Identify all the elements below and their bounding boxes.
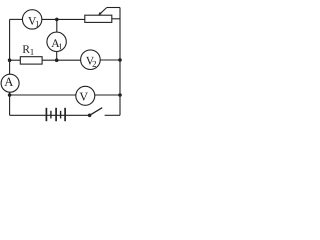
label V2	[86, 57, 94, 65]
wire left edge vertical upper	[9, 19, 11, 74]
wire V2 to right edge	[100, 59, 120, 61]
wire2 left to R1	[10, 59, 21, 61]
switch pivot	[88, 114, 92, 118]
node junction left V-row	[8, 93, 12, 97]
wire top-left horizontal	[10, 18, 23, 20]
battery plates	[45, 108, 47, 121]
ammeter A	[1, 74, 19, 92]
node junction right wire2	[118, 58, 122, 62]
label V1	[28, 17, 36, 25]
label A	[4, 78, 13, 86]
resistor R1	[20, 57, 42, 64]
wire rheostat right stub	[112, 18, 120, 20]
wire bottom rail left	[10, 114, 90, 116]
wire V1 to rheostat	[42, 18, 85, 20]
wire left edge vertical lower	[9, 92, 11, 115]
wire slider top to right edge	[107, 7, 120, 9]
node junction right V-row	[118, 93, 122, 97]
node junction left wire2	[8, 58, 12, 62]
voltmeter V	[76, 86, 95, 105]
rheostat slider arrow	[99, 8, 106, 15]
rheostat arrowhead	[98, 12, 102, 15]
wire R1 to V2	[42, 59, 81, 61]
label R1	[23, 45, 30, 53]
wire V-row right	[95, 94, 120, 96]
ammeter A1	[47, 32, 66, 51]
node junction top (under V1 wire, feeds A1)	[55, 18, 59, 22]
rheostat (variable resistor) box	[85, 15, 112, 22]
wire A1 bottom to wire2	[56, 52, 58, 61]
node junction under A1	[55, 58, 59, 62]
wire right edge vertical	[119, 8, 121, 116]
wire junction down to A1	[56, 19, 58, 32]
wire bottom rail right	[105, 114, 120, 116]
wire V-row left	[10, 94, 76, 96]
label A1	[51, 39, 59, 47]
switch lever	[90, 108, 103, 116]
voltmeter V2	[81, 50, 101, 70]
voltmeter V1	[22, 10, 41, 29]
label V	[80, 93, 88, 101]
